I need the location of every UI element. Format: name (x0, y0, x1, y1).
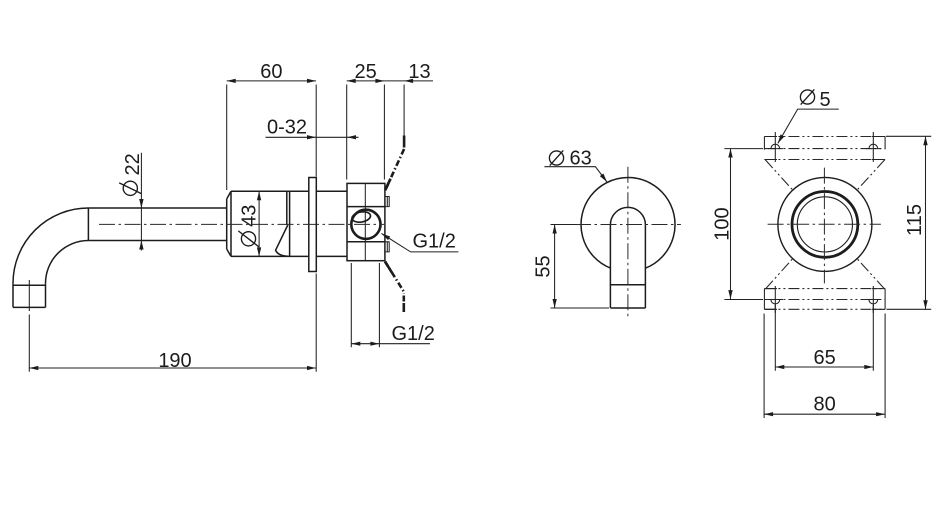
svg-text:22: 22 (122, 153, 144, 175)
svg-text:100: 100 (712, 207, 734, 240)
svg-text:13: 13 (408, 61, 430, 83)
svg-text:115: 115 (904, 204, 926, 236)
svg-text:0-32: 0-32 (267, 117, 307, 139)
svg-text:63: 63 (570, 148, 592, 170)
svg-text:190: 190 (158, 350, 191, 372)
svg-text:80: 80 (813, 394, 835, 416)
svg-text:55: 55 (533, 255, 555, 277)
svg-text:60: 60 (260, 61, 282, 83)
svg-text:G1/2: G1/2 (392, 323, 435, 345)
svg-text:65: 65 (813, 347, 835, 369)
svg-text:43: 43 (238, 205, 260, 227)
svg-text:25: 25 (354, 61, 376, 83)
svg-text:5: 5 (820, 89, 831, 111)
svg-text:G1/2: G1/2 (413, 231, 456, 253)
